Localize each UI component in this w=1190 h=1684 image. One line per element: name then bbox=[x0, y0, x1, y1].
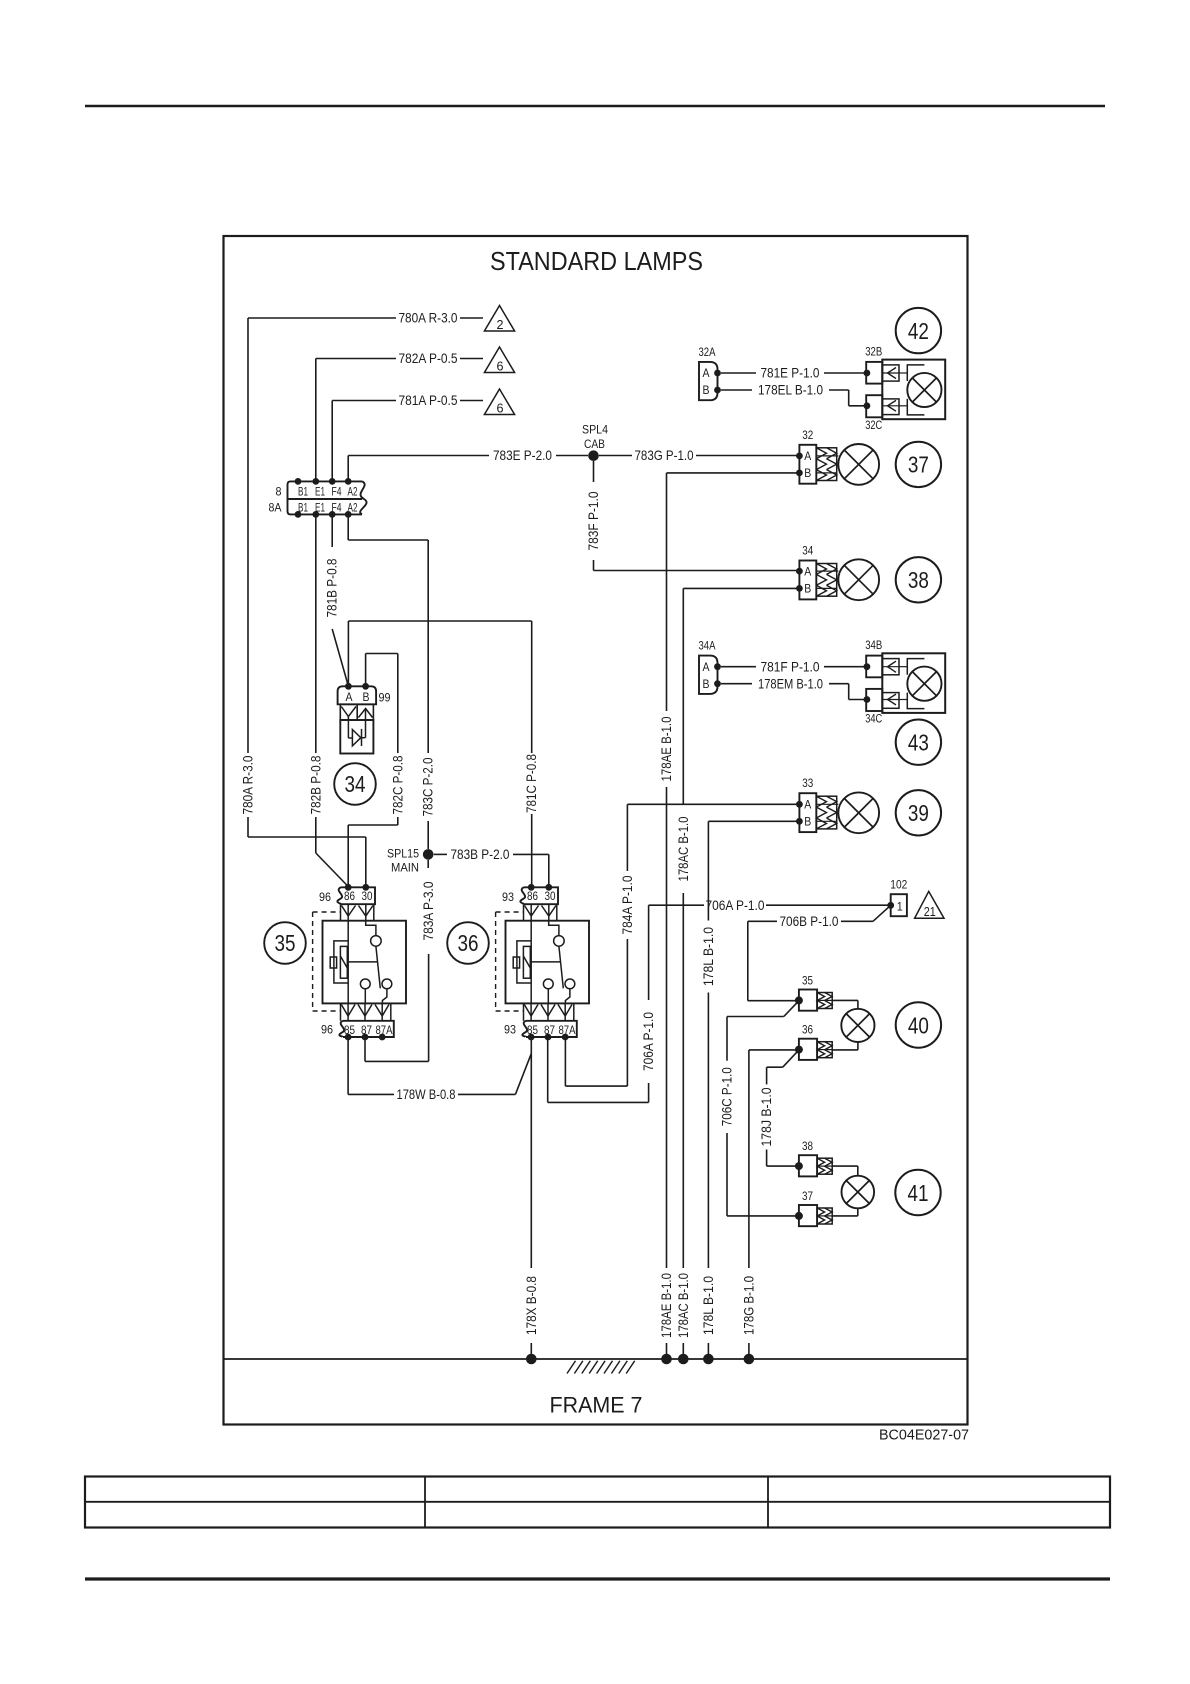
connector 102 bbox=[891, 894, 907, 916]
flasher pin B bbox=[362, 683, 369, 690]
splice SPL15 MAIN bbox=[423, 849, 434, 860]
connector 8A bottom pin dots B1 E1 F4 A2 bbox=[295, 511, 302, 518]
connector 32A bbox=[699, 362, 718, 400]
svg-text:30: 30 bbox=[362, 889, 373, 903]
wire 782B P-0.8 bbox=[315, 514, 317, 753]
wire 706B P-1.0 (connector 102 to lamp connector 35) bbox=[873, 905, 891, 921]
svg-text:781B P-0.8: 781B P-0.8 bbox=[323, 558, 339, 617]
wire 178J B-1.0 (connector 36 junction to connector 38) bbox=[783, 1050, 799, 1067]
svg-text:B: B bbox=[804, 466, 811, 480]
svg-text:178L B-1.0: 178L B-1.0 bbox=[700, 927, 716, 986]
ground hatching bbox=[567, 1361, 576, 1374]
connector 34A pin B bbox=[714, 680, 721, 687]
svg-text:783E P-2.0: 783E P-2.0 bbox=[493, 447, 552, 463]
connector 32A pin B bbox=[714, 387, 721, 394]
connector 102 pin 1 bbox=[887, 902, 894, 909]
bulb socket connector 32B bbox=[866, 362, 882, 384]
svg-text:780A R-3.0: 780A R-3.0 bbox=[399, 310, 458, 326]
off-page triangle 6 (781A) bbox=[484, 389, 514, 415]
wire 780A R-3.0 bbox=[248, 317, 396, 319]
relay 36 pin 30 bbox=[545, 884, 552, 891]
svg-text:86: 86 bbox=[527, 889, 538, 903]
ground junction 178L bbox=[703, 1354, 714, 1365]
bottom rule bbox=[85, 1577, 1110, 1580]
relay 35 top connector strip (96) bbox=[341, 887, 375, 904]
connector 8/8A bbox=[288, 481, 363, 514]
svg-text:34C: 34C bbox=[865, 712, 882, 726]
svg-text:37: 37 bbox=[908, 452, 929, 478]
wire 781E P-1.0 bbox=[721, 372, 756, 374]
relay 36 bottom connector strip (93) bbox=[526, 1021, 577, 1037]
circle ref 41 bbox=[895, 1170, 940, 1215]
lamp 33 socket teeth bbox=[816, 796, 836, 829]
top rule bbox=[85, 105, 1105, 107]
connector 35 pin bbox=[795, 996, 803, 1004]
svg-text:178L B-1.0: 178L B-1.0 bbox=[700, 1276, 716, 1335]
lamp bulb 33 bbox=[838, 792, 879, 833]
relay 36 dashed case outline bbox=[496, 911, 524, 913]
wire 781B P-0.8 bbox=[331, 514, 333, 547]
relay 36 pin 87 bbox=[545, 1034, 552, 1041]
relay 36 bottom teeth bbox=[523, 1003, 525, 1020]
ground junction 178X bbox=[526, 1354, 537, 1365]
circle ref 36 bbox=[447, 922, 489, 964]
lamp 38 socket teeth bbox=[817, 1158, 832, 1174]
svg-text:38: 38 bbox=[908, 567, 929, 593]
wire 178AE B-1.0 (lamp 32 pin B to ground) bbox=[667, 472, 800, 474]
relay 35 dashed case outline bbox=[313, 911, 341, 913]
bulb socket connector 32C bbox=[866, 395, 882, 417]
lamp bulb 41 bbox=[842, 1176, 875, 1209]
ground junction 178AE bbox=[661, 1354, 672, 1365]
svg-text:8: 8 bbox=[276, 485, 282, 499]
relay 35 bottom connector strip (96) bbox=[343, 1021, 394, 1037]
relay 35 pin 85 bbox=[345, 1034, 352, 1041]
svg-text:32C: 32C bbox=[865, 418, 882, 432]
lamp 42 filament socket top bbox=[882, 365, 899, 381]
relay 35 pin 30 bbox=[362, 884, 369, 891]
svg-text:93: 93 bbox=[504, 1023, 516, 1037]
relay 35 switch bbox=[366, 921, 376, 936]
svg-text:B: B bbox=[804, 582, 811, 596]
svg-text:SPL4: SPL4 bbox=[582, 423, 608, 437]
svg-text:A: A bbox=[346, 690, 353, 704]
wire 782C P-0.8 (from flasher pin B to relay 35) bbox=[365, 654, 367, 687]
svg-text:FRAME 7: FRAME 7 bbox=[550, 1393, 643, 1418]
relay 36 pin 86 bbox=[528, 884, 535, 891]
lamp connector 38 bbox=[799, 1155, 817, 1176]
svg-text:B: B bbox=[804, 815, 811, 829]
relay 36 switch bbox=[549, 921, 559, 936]
connector 34 pin A bbox=[796, 568, 803, 575]
connector 34B pin bbox=[864, 663, 871, 670]
wire 781C P-0.8 (from flasher pin A to relay 36) bbox=[347, 621, 349, 686]
svg-text:E1: E1 bbox=[315, 485, 325, 499]
lamp 32 socket teeth bbox=[816, 448, 836, 481]
svg-text:706A P-1.0: 706A P-1.0 bbox=[640, 1012, 656, 1071]
svg-text:42: 42 bbox=[908, 318, 929, 344]
svg-text:178W B-0.8: 178W B-0.8 bbox=[397, 1086, 456, 1102]
flasher pin A bbox=[345, 683, 352, 690]
wire 178X B-0.8 (relay 36 pin 85 to ground) bbox=[530, 1037, 532, 1268]
lamp connector 33 bbox=[799, 793, 816, 832]
svg-text:A: A bbox=[804, 449, 811, 463]
connector 33 pin A bbox=[796, 801, 803, 808]
svg-text:783C P-2.0: 783C P-2.0 bbox=[420, 757, 436, 816]
svg-text:783G P-1.0: 783G P-1.0 bbox=[635, 447, 694, 463]
svg-text:102: 102 bbox=[890, 878, 907, 892]
svg-text:41: 41 bbox=[908, 1180, 929, 1206]
svg-text:178EL B-1.0: 178EL B-1.0 bbox=[758, 382, 823, 398]
circle ref 37 bbox=[896, 442, 941, 487]
lamp unit housing (43) bbox=[882, 653, 945, 713]
wire 178W B-0.8 (relay 35 pin 85 to relay 36 pin 85) bbox=[347, 1037, 349, 1094]
svg-text:35: 35 bbox=[802, 973, 813, 987]
svg-text:782B P-0.8: 782B P-0.8 bbox=[307, 755, 323, 814]
relay 35 bottom teeth bbox=[340, 1003, 342, 1020]
connector 37 pin bbox=[795, 1212, 803, 1220]
relay 36 top connector strip (93) bbox=[524, 887, 558, 904]
connector 34C pin bbox=[864, 696, 871, 703]
svg-text:40: 40 bbox=[908, 1012, 929, 1038]
svg-text:783F P-1.0: 783F P-1.0 bbox=[585, 491, 601, 550]
relay 36 pin 87A bbox=[562, 1034, 569, 1041]
svg-text:36: 36 bbox=[802, 1023, 813, 1037]
svg-text:34: 34 bbox=[802, 544, 813, 558]
svg-text:96: 96 bbox=[321, 1023, 333, 1037]
relay 36 top teeth bbox=[523, 904, 525, 921]
svg-text:178G B-1.0: 178G B-1.0 bbox=[740, 1276, 756, 1335]
flasher 99 pin teeth bbox=[340, 704, 373, 720]
wire 783B P-2.0 (SPL15 to relay 36 pin 30) bbox=[434, 853, 447, 855]
svg-text:6: 6 bbox=[497, 359, 504, 374]
svg-text:178AE B-1.0: 178AE B-1.0 bbox=[658, 716, 674, 781]
wire from connector 38 to bulb 41 bbox=[832, 1165, 858, 1167]
lamp 35 socket teeth bbox=[817, 993, 832, 1009]
wire 781F P-1.0 bbox=[721, 666, 756, 668]
relay 35 top teeth bbox=[340, 904, 342, 921]
svg-text:781E P-1.0: 781E P-1.0 bbox=[761, 365, 820, 381]
lamp connector 34 bbox=[799, 561, 816, 600]
lamp unit housing (42) bbox=[882, 360, 945, 420]
svg-text:35: 35 bbox=[275, 930, 296, 956]
lamp connector 37 bbox=[799, 1205, 817, 1226]
connector 33 pin B bbox=[796, 818, 803, 825]
lamp 42 filament socket bottom bbox=[882, 399, 899, 415]
circle ref 35 bbox=[264, 922, 306, 964]
wire 178EM B-1.0 bbox=[721, 683, 752, 685]
svg-text:A2: A2 bbox=[348, 485, 358, 499]
svg-text:86: 86 bbox=[344, 889, 355, 903]
svg-text:783A P-3.0: 783A P-3.0 bbox=[420, 881, 436, 940]
relay 35 pin 87 bbox=[362, 1034, 369, 1041]
connector 8 top pin dots B1 E1 F4 A2 bbox=[295, 478, 302, 485]
svg-text:38: 38 bbox=[802, 1139, 813, 1153]
svg-text:178AE B-1.0: 178AE B-1.0 bbox=[658, 1273, 674, 1338]
wire 783F P-1.0 (SPL4 to lamp 34 pin A) bbox=[593, 461, 595, 482]
connector 32 pin A bbox=[796, 453, 803, 460]
wire from connector 37 to bulb 41 bbox=[832, 1215, 858, 1217]
svg-text:36: 36 bbox=[458, 930, 479, 956]
lamp connector 32 bbox=[799, 445, 816, 484]
relay 36 pin 85 bbox=[528, 1034, 535, 1041]
lamp bulb 32 bbox=[838, 444, 879, 485]
wire 178EL B-1.0 bbox=[721, 389, 752, 391]
lamp 43 filament socket top bbox=[882, 659, 899, 675]
relay 35 pin 86 bbox=[345, 884, 352, 891]
wire 706C P-1.0 (connector 35 junction to connector 37) bbox=[784, 1001, 799, 1017]
svg-text:43: 43 bbox=[908, 730, 929, 756]
flasher 99 body with diode bbox=[340, 720, 373, 754]
wire 783E P-2.0 bbox=[347, 456, 349, 482]
svg-text:99: 99 bbox=[379, 691, 391, 705]
wire 178G feed at connector 36 bbox=[749, 1049, 799, 1051]
bulb socket connector 34B bbox=[866, 656, 882, 678]
wire 706A P-1.0 (relay 36 pin 87 to connector 102) bbox=[547, 1037, 549, 1102]
svg-text:B1: B1 bbox=[298, 485, 308, 499]
ground bus FRAME 7 bbox=[224, 1358, 968, 1360]
circle ref 39 bbox=[896, 790, 941, 835]
circle ref 40 bbox=[896, 1002, 941, 1047]
svg-text:34: 34 bbox=[345, 771, 366, 797]
circle ref 34 bbox=[334, 763, 376, 805]
lamp bulb 43 bbox=[907, 667, 941, 701]
svg-text:706B P-1.0: 706B P-1.0 bbox=[780, 913, 839, 929]
svg-text:780A R-3.0: 780A R-3.0 bbox=[240, 755, 256, 814]
svg-text:784A P-1.0: 784A P-1.0 bbox=[619, 875, 635, 934]
svg-text:B: B bbox=[703, 383, 710, 397]
svg-text:34B: 34B bbox=[865, 638, 882, 652]
svg-text:32A: 32A bbox=[699, 345, 716, 359]
svg-text:782C P-0.8: 782C P-0.8 bbox=[389, 755, 405, 814]
flasher unit 99 connector bbox=[338, 686, 377, 704]
svg-text:32B: 32B bbox=[865, 344, 882, 358]
wire 782A P-0.5 bbox=[316, 358, 396, 360]
svg-text:781C P-0.8: 781C P-0.8 bbox=[523, 754, 539, 813]
svg-text:STANDARD LAMPS: STANDARD LAMPS bbox=[490, 246, 703, 276]
svg-text:SPL15: SPL15 bbox=[387, 847, 419, 861]
wire 178G B-1.0 (lamp 40 connector 36 to ground) bbox=[748, 1050, 750, 1268]
off-page triangle 21 bbox=[915, 891, 944, 918]
svg-text:A: A bbox=[703, 366, 710, 380]
svg-text:706A P-1.0: 706A P-1.0 bbox=[706, 897, 765, 913]
splice SPL4 CAB bbox=[588, 450, 599, 461]
wire 781A P-0.5 bbox=[332, 400, 396, 402]
svg-text:30: 30 bbox=[545, 889, 556, 903]
wire 784A P-1.0 (relay 36 pin 87A to lamp 33 pin A) bbox=[564, 1037, 566, 1086]
svg-text:178AC B-1.0: 178AC B-1.0 bbox=[675, 1273, 691, 1338]
svg-text:178J B-1.0: 178J B-1.0 bbox=[758, 1087, 774, 1146]
svg-text:178AC B-1.0: 178AC B-1.0 bbox=[675, 816, 691, 881]
lamp bulb 34 bbox=[838, 559, 879, 600]
lamp connector 36 bbox=[799, 1039, 817, 1060]
lamp 36 socket teeth bbox=[817, 1042, 832, 1058]
wire 783G P-1.0 bbox=[599, 455, 632, 457]
off-page triangle 6 (782A) bbox=[484, 347, 514, 373]
svg-text:96: 96 bbox=[319, 890, 331, 904]
lamp 34 socket teeth bbox=[816, 564, 836, 597]
svg-text:BC04E027-07: BC04E027-07 bbox=[879, 1428, 969, 1444]
lamp 37 socket teeth bbox=[817, 1208, 832, 1224]
footer table bbox=[85, 1477, 1110, 1528]
lamp bulb 42 bbox=[907, 373, 941, 407]
diagram frame bbox=[224, 236, 968, 1425]
svg-text:37: 37 bbox=[802, 1189, 813, 1203]
svg-text:34A: 34A bbox=[699, 639, 716, 653]
connector 36 pin bbox=[795, 1046, 803, 1054]
svg-text:781A P-0.5: 781A P-0.5 bbox=[399, 392, 458, 408]
svg-text:B: B bbox=[363, 690, 370, 704]
connector 34A pin A bbox=[714, 663, 721, 670]
bulb socket connector 34C bbox=[866, 689, 882, 711]
connector 34A bbox=[699, 656, 718, 694]
connector 38 pin bbox=[795, 1162, 803, 1170]
svg-text:39: 39 bbox=[908, 800, 929, 826]
svg-text:CAB: CAB bbox=[584, 437, 605, 451]
connector 34 pin B bbox=[796, 585, 803, 592]
lamp connector 35 bbox=[799, 990, 817, 1011]
ground junction 178G bbox=[744, 1354, 755, 1365]
svg-text:6: 6 bbox=[497, 401, 504, 416]
circle ref 43 bbox=[896, 720, 941, 765]
wire from connector 35 to bulb 40 bbox=[832, 999, 858, 1001]
svg-text:782A P-0.5: 782A P-0.5 bbox=[399, 350, 458, 366]
svg-text:2: 2 bbox=[497, 317, 504, 332]
lamp bulb 40 bbox=[841, 1009, 874, 1042]
circle ref 38 bbox=[896, 557, 941, 602]
relay 35 pin 87A bbox=[379, 1034, 386, 1041]
connector 32B pin bbox=[864, 370, 871, 377]
relay 36 coil bbox=[530, 921, 532, 1004]
svg-text:8A: 8A bbox=[269, 501, 282, 515]
svg-text:1: 1 bbox=[897, 899, 903, 913]
svg-text:706C P-1.0: 706C P-1.0 bbox=[719, 1067, 735, 1126]
svg-text:A: A bbox=[703, 660, 710, 674]
circle ref 42 bbox=[896, 308, 941, 353]
svg-text:A: A bbox=[804, 798, 811, 812]
relay 36 body bbox=[506, 921, 590, 1004]
relay 35 coil bbox=[347, 921, 349, 1004]
svg-text:A: A bbox=[804, 564, 811, 578]
connector 32A pin A bbox=[714, 370, 721, 377]
lamp 43 filament socket bottom bbox=[882, 693, 899, 709]
svg-text:33: 33 bbox=[802, 776, 813, 790]
svg-text:178X B-0.8: 178X B-0.8 bbox=[523, 1276, 539, 1335]
svg-text:783B P-2.0: 783B P-2.0 bbox=[451, 846, 510, 862]
wire 783A P-3.0 (SPL15 to relay 35 pin 87) bbox=[427, 860, 429, 868]
svg-text:93: 93 bbox=[502, 890, 514, 904]
wire 178L B-1.0 (lamp 33 pin B to ground) bbox=[708, 820, 799, 822]
wire 178AC B-1.0 (lamp 34 pin B to ground) bbox=[683, 587, 799, 589]
connector 32 pin B bbox=[796, 470, 803, 477]
svg-text:F4: F4 bbox=[332, 485, 342, 499]
svg-text:21: 21 bbox=[924, 904, 936, 919]
wire from connector 36 to bulb 40 bbox=[832, 1049, 858, 1051]
svg-text:32: 32 bbox=[802, 428, 813, 442]
svg-text:MAIN: MAIN bbox=[391, 861, 419, 875]
wire 783C P-2.0 bbox=[347, 514, 349, 540]
svg-text:B: B bbox=[703, 677, 710, 691]
diode inside flasher 99 bbox=[352, 730, 360, 746]
connector 32C pin bbox=[864, 402, 871, 409]
ground junction 178AC bbox=[678, 1354, 689, 1365]
off-page triangle 2 bbox=[484, 306, 514, 332]
svg-text:781F P-1.0: 781F P-1.0 bbox=[761, 658, 820, 674]
svg-text:178EM B-1.0: 178EM B-1.0 bbox=[758, 675, 823, 691]
relay 35 body bbox=[323, 921, 407, 1004]
